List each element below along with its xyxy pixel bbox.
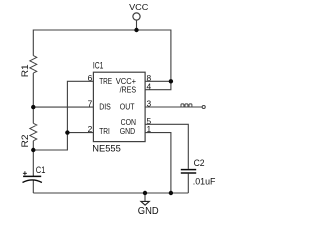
svg-text:GND: GND bbox=[120, 127, 136, 136]
svg-text:.01uF: .01uF bbox=[193, 176, 216, 187]
svg-text:2: 2 bbox=[88, 124, 93, 134]
svg-text:VCC: VCC bbox=[129, 3, 148, 12]
svg-text:3: 3 bbox=[147, 99, 152, 109]
svg-text:1: 1 bbox=[147, 124, 152, 134]
svg-text:R1: R1 bbox=[20, 64, 30, 77]
svg-text:C2: C2 bbox=[194, 158, 205, 168]
svg-text:IC1: IC1 bbox=[93, 60, 104, 70]
svg-text:OUT: OUT bbox=[120, 102, 135, 111]
svg-text:R2: R2 bbox=[20, 134, 30, 147]
svg-text:TRI: TRI bbox=[99, 127, 110, 136]
svg-text:6: 6 bbox=[88, 73, 93, 83]
svg-text:CON: CON bbox=[121, 118, 136, 127]
svg-text:TRE: TRE bbox=[99, 77, 112, 86]
svg-text:7: 7 bbox=[88, 99, 93, 109]
svg-text:C1: C1 bbox=[36, 165, 46, 175]
svg-text:4: 4 bbox=[147, 81, 152, 91]
svg-text:DIS: DIS bbox=[99, 102, 111, 111]
svg-text:GND: GND bbox=[138, 206, 159, 215]
svg-text:NE555: NE555 bbox=[92, 143, 121, 153]
svg-text:/RES: /RES bbox=[120, 86, 137, 95]
